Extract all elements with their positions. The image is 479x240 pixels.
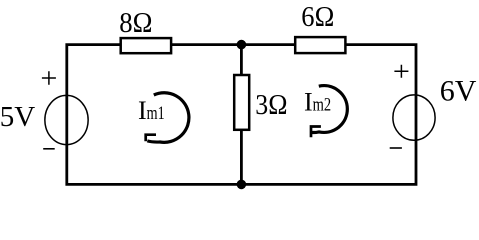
polarity - of V2 <box>390 147 402 149</box>
svg-text:8Ω: 8Ω <box>119 7 152 39</box>
wire: top-left segment, left vertical, bottom-left segment <box>67 45 242 185</box>
node B (bottom junction dot) <box>237 180 247 190</box>
svg-text:Im1: Im1 <box>138 96 165 125</box>
source V1 (5V) circle <box>45 95 88 144</box>
svg-text:6V: 6V <box>440 74 477 107</box>
polarity + of V2 <box>394 65 408 78</box>
mesh current Im2 arrowhead <box>311 127 321 138</box>
svg-text:5V: 5V <box>0 101 35 133</box>
resistor R2 (6 ohm) body <box>295 37 345 53</box>
wire: node A to R2 left lead <box>241 43 295 46</box>
node A (top junction dot) <box>237 40 247 50</box>
svg-text:Im2: Im2 <box>304 88 331 117</box>
mesh current Im2 arc <box>311 86 347 133</box>
source V2 (6V) circle <box>393 95 435 140</box>
resistor R1 (8 ohm) body <box>121 38 171 53</box>
wire: R3 down to node B <box>240 130 243 184</box>
polarity + of V1 <box>42 71 56 84</box>
wire: node A down to R3 <box>240 45 243 76</box>
mesh current Im1 arc <box>147 93 189 143</box>
resistor R3 (3 ohm) body <box>234 75 249 130</box>
wire: R1 right lead to node A <box>171 43 241 46</box>
svg-text:3Ω: 3Ω <box>255 89 287 121</box>
wire: top-right segment, right vertical, bottom-right segment <box>241 45 416 185</box>
mesh current Im1 arrowhead <box>146 135 156 142</box>
svg-text:6Ω: 6Ω <box>301 1 334 33</box>
polarity - of V1 <box>43 148 55 150</box>
